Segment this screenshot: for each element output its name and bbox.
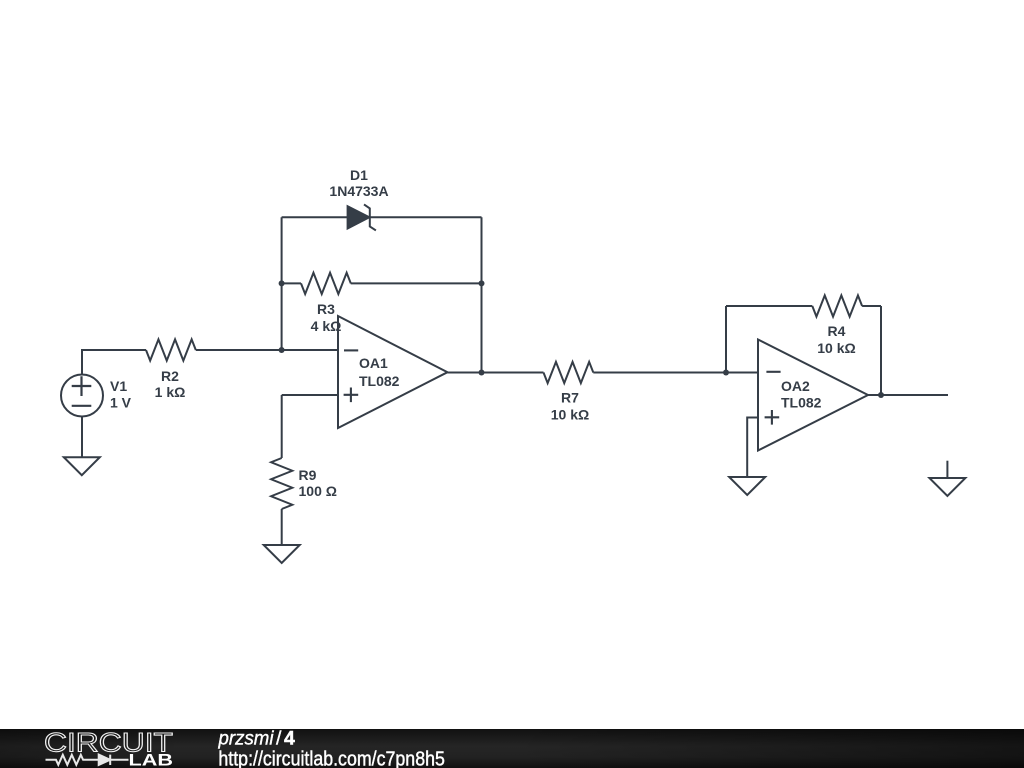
wire R3 left lead <box>282 282 301 284</box>
svg-text:OA1: OA1 <box>359 355 388 371</box>
svg-text:10 kΩ: 10 kΩ <box>551 407 589 423</box>
label OA1 TL082 <box>359 355 400 389</box>
svg-text:przsmi/4: przsmi/4 <box>218 728 295 750</box>
label D1 1N4733A <box>329 167 388 199</box>
resistor R3 <box>301 273 351 294</box>
wire R7 to node B <box>593 372 726 374</box>
wire D1 anode <box>282 216 348 218</box>
wire left feedback riser <box>281 217 283 350</box>
ground (floating right) <box>929 478 965 496</box>
junction dot R3 right <box>479 280 485 286</box>
label R9 100 Ohm <box>299 467 337 499</box>
label OA2 TL082 <box>781 378 822 411</box>
junction dot OA2 output <box>878 392 884 398</box>
svg-text:1 V: 1 V <box>110 394 132 410</box>
svg-text:R7: R7 <box>561 390 579 406</box>
svg-text:R9: R9 <box>299 467 317 483</box>
label V1 1 V <box>110 378 132 410</box>
wire OA2 plus input stub <box>747 418 758 478</box>
wire R3 right lead <box>351 282 482 284</box>
wire R9 to ground <box>281 509 283 545</box>
svg-text:R4: R4 <box>828 323 846 339</box>
wire R4 to right riser <box>862 305 881 307</box>
resistor R2 <box>146 339 196 360</box>
resistor R9 <box>271 458 292 509</box>
wire node A to op-amp minus input <box>282 349 338 351</box>
label R2 1 kOhm <box>155 368 186 400</box>
svg-text:TL082: TL082 <box>359 373 400 389</box>
svg-text:R3: R3 <box>317 301 335 317</box>
svg-text:LAB: LAB <box>129 752 174 768</box>
resistor R7 <box>544 362 594 383</box>
wire D1 cathode to right riser <box>370 216 482 218</box>
svg-text:R2: R2 <box>161 368 179 384</box>
svg-text:100 Ω: 100 Ω <box>299 483 337 499</box>
junction dot R3 left <box>279 280 285 286</box>
wire R2 to inverting node <box>196 349 282 351</box>
voltage source V1 <box>61 375 103 417</box>
node A junction dot <box>279 347 285 353</box>
wire node B to OA2 minus input <box>726 372 758 374</box>
svg-text:OA2: OA2 <box>781 378 810 394</box>
ground (OA2 plus) <box>729 477 765 495</box>
wire OA2 output <box>868 394 949 396</box>
wire OA1 plus input <box>282 394 338 396</box>
ground stub (floating) <box>946 461 948 478</box>
op-amp OA2 <box>758 340 868 451</box>
wire right riser of OA2 loop <box>880 306 882 395</box>
zener diode D1 <box>348 204 376 230</box>
svg-text:TL082: TL082 <box>781 395 822 411</box>
svg-text:1N4733A: 1N4733A <box>329 183 388 199</box>
wire OA1 output to R7 <box>448 372 544 374</box>
svg-text:1 kΩ: 1 kΩ <box>155 384 186 400</box>
svg-text:V1: V1 <box>110 378 127 394</box>
label R7 10 kOhm <box>551 390 589 423</box>
svg-text:http://circuitlab.com/c7pn8h5: http://circuitlab.com/c7pn8h5 <box>218 747 445 768</box>
label R3 4 kOhm <box>311 301 342 334</box>
wire loop top to R4 <box>726 305 812 307</box>
ground (R9) <box>264 545 300 563</box>
svg-text:D1: D1 <box>350 167 368 183</box>
wire left riser of OA2 loop <box>725 306 727 373</box>
label R4 10 kOhm <box>817 323 855 356</box>
node B junction dot <box>723 370 729 376</box>
footer bar <box>0 729 1024 768</box>
wire V1 bottom to ground <box>81 416 83 457</box>
svg-text:4 kΩ: 4 kΩ <box>311 318 342 334</box>
svg-text:10 kΩ: 10 kΩ <box>817 340 855 356</box>
ground (V1) <box>64 457 100 475</box>
wire V1 top to R2 <box>82 350 146 374</box>
junction dot OA1 output <box>479 370 485 376</box>
logo resistor-diode doodle <box>46 755 129 765</box>
resistor R4 <box>812 295 862 316</box>
wire right feedback riser <box>481 217 483 372</box>
wire to R9 <box>281 395 283 458</box>
op-amp OA1 <box>338 316 448 428</box>
